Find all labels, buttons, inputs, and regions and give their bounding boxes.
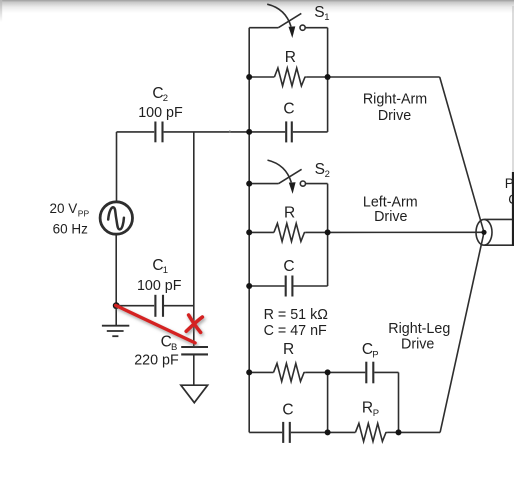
annotation: red strike line: [116, 305, 195, 343]
svg-text:R: R: [283, 341, 294, 358]
connector ellipse: [476, 219, 492, 245]
node: block3 R left: [246, 369, 252, 375]
wire: C branch block1 leads: [249, 131, 285, 133]
switch S2 arrowhead: [289, 182, 296, 194]
wire: switch S1 branch left lead: [249, 27, 278, 29]
wire: mid rail x=193.8 from C2 line down to CB: [193, 132, 195, 346]
chassis ground triangle: [181, 385, 208, 403]
svg-text:220 pF: 220 pF: [134, 352, 179, 368]
resistor R block3 zigzag: [274, 363, 306, 381]
annotation: red X mark: [186, 315, 202, 332]
wire: switch S2 to right rail: [306, 183, 328, 185]
svg-text:R = 51 kΩ: R = 51 kΩ: [264, 307, 329, 323]
node: block2 R left: [246, 229, 252, 235]
wire: CP branch leads: [328, 371, 366, 373]
wire: CB bottom to chassis ground: [193, 354, 195, 385]
node: block1 R right: [325, 74, 331, 80]
svg-text:C: C: [283, 101, 294, 118]
switch S2 contact circle: [300, 181, 305, 186]
ground G1 bars: [102, 326, 129, 337]
svg-text:1: 1: [324, 12, 329, 23]
node: block1 R left: [246, 74, 252, 80]
resistor R block1 zigzag: [274, 68, 306, 86]
node: block3 bottom mid: [325, 429, 331, 435]
wire: AC source bottom to ground node: [115, 234, 117, 305]
node: block2 R right: [325, 229, 331, 235]
svg-text:1: 1: [163, 265, 168, 276]
switch S1 motion arc: [267, 4, 291, 26]
switch S2 lever: [279, 169, 302, 183]
wire: Right-Leg output horizontal: [399, 431, 441, 433]
wire: right rail block2: [327, 184, 329, 286]
capacitor C block2 plates: [286, 276, 293, 297]
resistor R block2 zigzag: [274, 223, 306, 241]
svg-text:P: P: [372, 349, 378, 360]
svg-text:S: S: [315, 161, 325, 178]
wire: left rail top segment: [248, 28, 250, 433]
wire: right rail block1: [327, 28, 329, 132]
stray mark on wire: [229, 131, 231, 133]
svg-text:R: R: [284, 204, 295, 221]
svg-text:R: R: [362, 399, 373, 416]
connector cable bottom line: [485, 244, 514, 246]
wire: Right-Arm output horizontal: [328, 76, 440, 78]
svg-text:S: S: [314, 4, 324, 21]
wire: switch S1 to right rail: [306, 27, 328, 29]
node: block3 RP right: [396, 429, 402, 435]
connector cable top line: [485, 218, 514, 220]
node: block2 C left: [246, 283, 252, 289]
capacitor C1 plates: [155, 295, 163, 317]
svg-text:C: C: [283, 258, 294, 275]
svg-text:100 pF: 100 pF: [138, 105, 183, 121]
svg-text:100 pF: 100 pF: [137, 278, 182, 294]
wire: switch S2 branch left lead: [249, 183, 278, 185]
node: block2 switch left: [246, 181, 252, 187]
wire: mid vertical link block3: [327, 372, 329, 432]
AC source V1 circle: [100, 202, 132, 234]
svg-text:2: 2: [163, 93, 168, 104]
svg-text:Drive: Drive: [401, 336, 434, 352]
AC source sine symbol: [108, 207, 124, 229]
wire: left vertical from C2 down to AC source: [116, 132, 118, 202]
wire: Right-Arm diagonal to connector: [440, 77, 484, 232]
svg-text:60 Hz: 60 Hz: [53, 222, 89, 237]
wire: R branch block2 leads: [249, 231, 274, 233]
svg-text:20 V: 20 V: [50, 201, 78, 216]
svg-text:Drive: Drive: [374, 209, 407, 225]
svg-text:Right-Arm: Right-Arm: [363, 91, 427, 107]
resistor RP zigzag: [355, 423, 387, 441]
switch S1 lever: [278, 13, 301, 27]
ground G1 stub: [115, 306, 117, 326]
svg-text:Right-Leg: Right-Leg: [388, 321, 450, 337]
wire: R branch block3 leads: [249, 371, 273, 373]
svg-text:B: B: [171, 342, 177, 353]
cable dark bar at right edge: [512, 172, 514, 246]
svg-text:R: R: [285, 49, 296, 66]
svg-text:C: C: [282, 401, 293, 418]
svg-text:Drive: Drive: [378, 108, 411, 124]
wire: Left-Arm output to connector: [328, 231, 484, 233]
svg-text:2: 2: [325, 169, 330, 180]
capacitor CB plates: [181, 347, 208, 354]
wire: C1 horizontal from node to rail x=193.8: [116, 305, 154, 307]
capacitor C2 plates: [155, 122, 162, 143]
node: connector center: [481, 230, 486, 235]
switch S1 contact circle: [300, 25, 305, 30]
capacitor C block1 plates: [286, 121, 292, 142]
switch S1 arrowhead: [289, 26, 296, 38]
wire: C branch block2 leads: [249, 285, 285, 287]
capacitor C block3 plates: [283, 422, 290, 443]
wire: RP branch leads: [328, 431, 356, 433]
wire: bottom branch left segment with C: [249, 431, 282, 433]
wire: Right-Leg diagonal to connector: [440, 232, 484, 432]
wire: R1 branch leads: [249, 76, 274, 78]
page left edge shade: [0, 0, 2, 22]
svg-text:Left-Arm: Left-Arm: [363, 194, 418, 210]
node: C2/rail junction: [246, 129, 252, 135]
svg-text:PP: PP: [78, 209, 90, 219]
node: source/ground junction: [113, 302, 120, 309]
svg-text:C = 47 nF: C = 47 nF: [264, 323, 327, 339]
capacitor CP plates: [366, 362, 373, 384]
svg-text:P: P: [373, 408, 379, 419]
switch S2 motion arc: [268, 160, 292, 182]
page top shade gradient: [0, 0, 514, 13]
node: block3 R right / CP left: [325, 369, 331, 375]
page right edge line: [512, 6, 513, 176]
wire: C2 top horizontal y=131.9 from left corner to left rail: [117, 131, 155, 133]
wire: CP right vertical drop: [398, 372, 400, 432]
